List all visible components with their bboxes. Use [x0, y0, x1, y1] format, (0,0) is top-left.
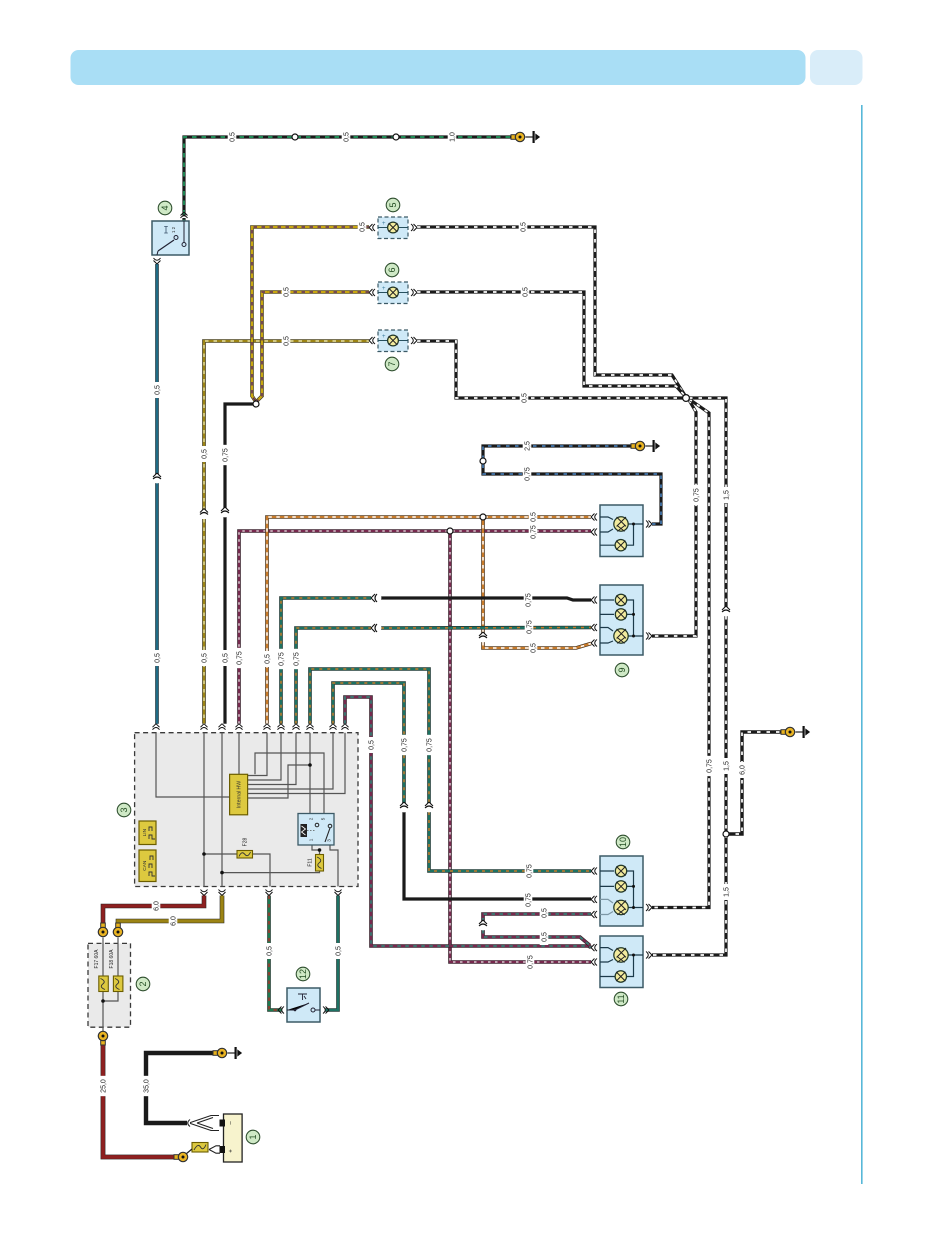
- svg-text:0,75: 0,75: [294, 652, 301, 666]
- wire lamp6 out BK/WH: [417, 292, 686, 397]
- module internal wiring: [156, 733, 345, 887]
- wire switch4 bottom BU lower: [155, 483, 159, 724]
- svg-text:+: +: [229, 1149, 235, 1153]
- svg-text:2: 2: [138, 981, 148, 986]
- header bar: [71, 50, 806, 85]
- svg-text:6: 6: [387, 267, 397, 272]
- svg-text:0,75: 0,75: [526, 593, 533, 607]
- svg-text:F17 60A: F17 60A: [94, 949, 100, 969]
- wire cluster8 to ground BU/BK: [483, 446, 661, 524]
- svg-text:0,5: 0,5: [202, 653, 209, 663]
- svg-text:0,5: 0,5: [369, 740, 376, 750]
- lamp L6: [378, 282, 408, 304]
- svg-text:0,5: 0,5: [265, 654, 272, 664]
- inline connector C2: [373, 624, 382, 633]
- svg-text:1 2: 1 2: [171, 226, 176, 233]
- wire switch4 top to ground GN/BK: [184, 137, 516, 224]
- svg-text:6,0: 6,0: [740, 765, 747, 775]
- inline connector C3: [425, 804, 434, 813]
- svg-text:0,5: 0,5: [223, 653, 230, 663]
- svg-text:5: 5: [321, 817, 326, 820]
- svg-text:10: 10: [618, 837, 628, 847]
- wire module to conn GN/OG a: [281, 598, 371, 724]
- splice S5: [723, 831, 729, 837]
- wire cluster10 pin3 link VT/GN: [483, 914, 591, 921]
- ground cluster8: [646, 445, 653, 447]
- node label 4: [158, 201, 172, 215]
- module fuse F28: [237, 837, 253, 858]
- svg-text:0,5: 0,5: [155, 385, 162, 395]
- wire splice to module BK: [225, 404, 256, 508]
- lamp cluster A10: [600, 856, 643, 926]
- wire fusebox to battery RD 25,0: [103, 1041, 179, 1157]
- battery negative cable connector: [189, 1116, 219, 1131]
- svg-text:0,5: 0,5: [542, 908, 549, 918]
- wire conn to cluster9 pin3 GN/OG: [381, 626, 591, 630]
- node label 12: [296, 967, 310, 981]
- splice S3: [480, 514, 486, 520]
- svg-text:0,5: 0,5: [284, 336, 291, 346]
- svg-text:6,0: 6,0: [171, 916, 178, 926]
- svg-text:0,75: 0,75: [237, 651, 244, 665]
- wire lamp7 out BK/WH: [417, 341, 683, 398]
- svg-text:4: 4: [160, 205, 170, 210]
- wire module to conn GN/OG b: [296, 628, 371, 724]
- ring terminal G1: [511, 135, 516, 140]
- svg-text:0,5: 0,5: [344, 132, 351, 142]
- svg-text:0,5: 0,5: [521, 222, 528, 232]
- wire lamp5 out BK/WH: [417, 227, 686, 397]
- inline connector C4: [400, 804, 409, 813]
- wire cluster10 pin3 link lower VT/GN: [483, 930, 590, 946]
- svg-text:Internal HW: Internal HW: [236, 781, 242, 808]
- inline connector C10: [221, 509, 230, 518]
- ring terminal G4: [213, 1051, 218, 1056]
- svg-text:1,0: 1,0: [450, 132, 457, 142]
- wire lamp5 feed YE/VT: [252, 227, 369, 402]
- ground right mid: [796, 731, 803, 733]
- wire ground feed 6,0 BK/WH: [726, 732, 786, 834]
- fuse F17: [94, 949, 109, 992]
- svg-text:CAN: CAN: [142, 860, 148, 871]
- svg-text:0,75: 0,75: [528, 955, 535, 969]
- wire module to cluster8 pin2 VT/WH: [239, 531, 591, 724]
- node label 10: [616, 835, 630, 849]
- svg-text:0,75: 0,75: [694, 488, 701, 502]
- module fuse F11: [307, 855, 323, 872]
- wire module to switch12 GN/RD: [269, 896, 284, 1011]
- wire cluster10 pin1 lower GN/OG: [429, 812, 591, 871]
- node label 11: [614, 992, 628, 1006]
- ring terminal G3: [631, 444, 636, 449]
- lamp L7: [378, 330, 408, 352]
- svg-text:0,5: 0,5: [336, 946, 343, 956]
- lamp L5: [378, 217, 408, 239]
- node label 9: [615, 663, 629, 677]
- switch SW12: [287, 988, 320, 1022]
- wire module to conn GN/OG c: [333, 683, 404, 803]
- ground battery: [228, 1052, 235, 1054]
- svg-text:7: 7: [387, 361, 397, 366]
- svg-text:1,5: 1,5: [724, 490, 731, 500]
- svg-text:0,75: 0,75: [531, 525, 538, 539]
- svg-text:0,5: 0,5: [267, 946, 274, 956]
- wire module to cluster11 pin1 VT/GN: [345, 697, 591, 947]
- node label 5: [386, 198, 400, 212]
- wire junction to cluster11 upper BK/WH: [689, 398, 726, 607]
- svg-text:5: 5: [388, 202, 398, 207]
- svg-text:0,5: 0,5: [542, 932, 549, 942]
- svg-text:F18 60A: F18 60A: [109, 949, 115, 969]
- wire junction to cluster11 lower BK/WH: [652, 616, 726, 955]
- fusebox ring terminals: [101, 923, 106, 928]
- wire module to lamp7 OG/YE: [204, 341, 369, 510]
- svg-text:9: 9: [617, 667, 627, 672]
- module CAN transceiver: [139, 850, 156, 882]
- module internal HW box: [230, 774, 248, 815]
- wire branch to cluster9 pin4 OG/WH: [481, 517, 485, 633]
- inline connector C8: [153, 475, 162, 484]
- svg-text:1: 1: [309, 838, 314, 841]
- node label 3: [117, 803, 131, 817]
- svg-text:0,75: 0,75: [526, 893, 533, 907]
- svg-text:0,75: 0,75: [279, 652, 286, 666]
- wire module to fusebox YE 6,0: [118, 896, 222, 926]
- right page rule: [861, 105, 863, 1184]
- wire branch to cluster9 pin4b OG/WH: [483, 642, 591, 648]
- svg-text:0,75: 0,75: [402, 738, 409, 752]
- svg-text:3: 3: [119, 807, 129, 812]
- wire switch12 to module GN: [323, 896, 338, 1011]
- svg-text:0,5: 0,5: [531, 643, 538, 653]
- svg-text:1,5: 1,5: [724, 887, 731, 897]
- svg-text:0,5: 0,5: [202, 449, 209, 459]
- node label 2: [136, 977, 150, 991]
- wire module to cluster8 pin1 OG/WH: [267, 517, 591, 724]
- wire junction to cluster9 BK/WH: [652, 400, 696, 636]
- svg-text:0,75: 0,75: [525, 467, 532, 481]
- svg-text:2,5: 2,5: [525, 441, 532, 451]
- ring terminal battery positive: [174, 1155, 179, 1160]
- inline connector C7: [722, 608, 731, 617]
- svg-text:1: 1: [248, 1134, 258, 1139]
- svg-text:0,75: 0,75: [527, 620, 534, 634]
- svg-text:1,5: 1,5: [724, 761, 731, 771]
- svg-text:0,5: 0,5: [284, 287, 291, 297]
- inline connector C9: [200, 510, 209, 519]
- svg-text:0,75: 0,75: [707, 759, 714, 773]
- splice S1: [253, 401, 259, 407]
- wire splice to module BK lower: [223, 517, 226, 724]
- wire lamp6 feed YE/VT: [256, 292, 369, 402]
- node label 6: [385, 263, 399, 277]
- splice S6: [480, 458, 486, 464]
- fusebox internal wiring: [103, 938, 118, 1032]
- module relay K1: [298, 814, 334, 846]
- node label 7: [385, 357, 399, 371]
- svg-text:0,5: 0,5: [155, 653, 162, 663]
- wire module to cluster10 pin1 GN/OG: [310, 669, 429, 803]
- svg-text:3: 3: [327, 839, 332, 842]
- svg-text:0,75: 0,75: [527, 864, 534, 878]
- inline connector C5: [479, 634, 488, 643]
- svg-text:0,75: 0,75: [223, 448, 230, 462]
- battery positive connector and fusible link: [209, 1146, 220, 1153]
- wire branch to cluster11 pin2 VT/WH: [450, 531, 591, 962]
- wire conn to cluster9 pin1 BK: [381, 598, 591, 600]
- svg-text:2: 2: [309, 817, 314, 820]
- ground top right: [526, 136, 533, 138]
- svg-text:0,5: 0,5: [230, 132, 237, 142]
- svg-text:0,75: 0,75: [427, 738, 434, 752]
- svg-text:0,5: 0,5: [531, 512, 538, 522]
- splice S4: [683, 395, 690, 402]
- svg-text:35,0: 35,0: [144, 1079, 151, 1093]
- lamp cluster A9: [600, 585, 643, 655]
- switch SW4: [152, 221, 189, 255]
- wire conn to cluster10 pin2 BK: [404, 812, 591, 899]
- wire module to fusebox RD 6,0: [103, 896, 204, 926]
- node label 1: [246, 1130, 260, 1144]
- splice S2: [447, 528, 453, 534]
- svg-text:LIN: LIN: [142, 828, 148, 836]
- svg-text:0,5: 0,5: [360, 222, 367, 232]
- svg-text:+: +: [382, 334, 386, 340]
- module GEM3 box: [135, 733, 358, 887]
- module LIN transceiver: [139, 821, 156, 845]
- ring terminal G2: [781, 730, 786, 735]
- fusebox F2: [88, 943, 131, 1027]
- wire junction to cluster10 BK/WH: [652, 399, 709, 908]
- svg-text:0,5: 0,5: [523, 287, 530, 297]
- inline connector C1: [373, 594, 382, 603]
- svg-text:6,0: 6,0: [154, 901, 161, 911]
- lamp cluster A8: [600, 505, 643, 557]
- inline connector C6: [479, 922, 488, 931]
- svg-text:F11: F11: [307, 858, 313, 866]
- wire battery negative BK 35,0: [146, 1053, 218, 1123]
- fuse F18: [109, 949, 123, 992]
- svg-text:25,0: 25,0: [101, 1079, 108, 1093]
- svg-text:+: +: [382, 221, 386, 227]
- svg-text:F28: F28: [243, 837, 249, 846]
- svg-text:11: 11: [616, 994, 626, 1003]
- battery B1: [220, 1114, 243, 1162]
- lamp cluster A11: [600, 936, 643, 988]
- svg-text:12: 12: [298, 969, 308, 979]
- svg-text:0,5: 0,5: [522, 393, 529, 403]
- wire module to lamp7 OG/YE lower: [202, 519, 206, 724]
- wire switch4 bottom BU: [155, 264, 159, 474]
- svg-text:+: +: [382, 286, 386, 292]
